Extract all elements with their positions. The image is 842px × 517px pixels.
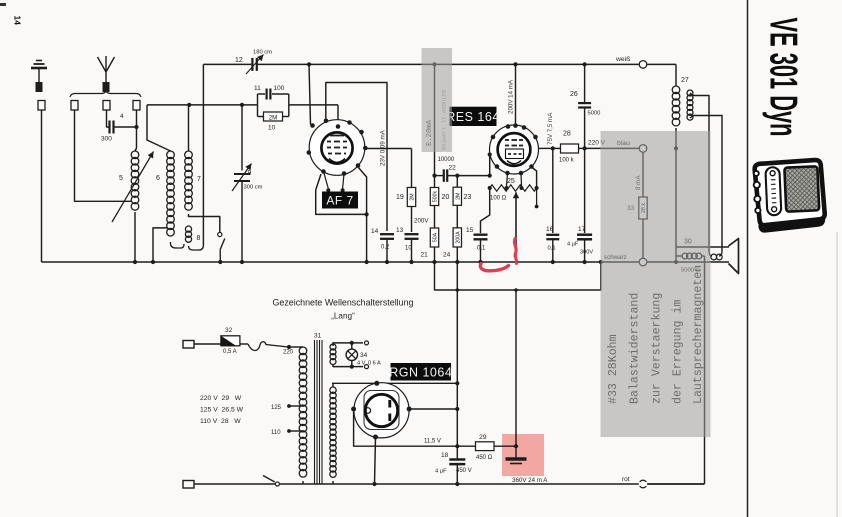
svg-text:15: 15 [466, 227, 474, 234]
wire L6 top [147, 105, 171, 151]
capacitor C22 [435, 157, 490, 182]
R25 wiper arrow [513, 192, 519, 262]
svg-text:14: 14 [371, 228, 379, 235]
svg-text:5000: 5000 [588, 111, 601, 117]
voltage table [200, 395, 244, 425]
AF7 electrodes [327, 136, 347, 163]
svg-text:8: 8 [197, 235, 201, 242]
svg-text:300V: 300V [580, 250, 593, 256]
terminal rot [622, 476, 647, 488]
svg-text:110 V 28 W: 110 V 28 W [200, 418, 241, 425]
wire L6 tap to bus [153, 228, 168, 262]
voltage label 75V [547, 112, 554, 145]
AF7 pins [307, 119, 368, 176]
svg-text:200V 14 mA: 200V 14 mA [508, 79, 515, 114]
junction 220V node [583, 146, 587, 150]
T27 secondary leads [690, 93, 722, 251]
wire C4 to socket4 [115, 110, 139, 129]
svg-text:11: 11 [254, 85, 261, 92]
grey highlight strip [422, 48, 453, 152]
label 200V [414, 218, 429, 225]
capacitor C18 [435, 452, 472, 486]
capacitor C26 [570, 64, 600, 148]
svg-text:17: 17 [578, 226, 586, 233]
resistor R10 [258, 105, 289, 132]
capacitor C12 (180cm trimmer) [235, 50, 272, 75]
top rail [203, 63, 676, 65]
svg-text:5: 5 [119, 175, 123, 182]
sidebar faint edge [836, 232, 838, 517]
wire L5 to bus [134, 212, 136, 262]
wire HV top [332, 383, 334, 387]
svg-text:22: 22 [449, 165, 457, 172]
svg-text:13: 13 [396, 227, 404, 234]
svg-text:0,5 A: 0,5 A [223, 349, 237, 355]
RES164 grid wire [488, 152, 492, 177]
wire to blau [585, 140, 639, 149]
svg-text:21: 21 [421, 252, 429, 259]
label 360V [512, 477, 548, 484]
bus junction L5 [133, 260, 137, 264]
svg-text:VE 301 Dyn: VE 301 Dyn [762, 18, 805, 137]
svg-text:18: 18 [441, 452, 449, 459]
page corner mark [0, 3, 6, 6]
RGN anode plate [364, 391, 399, 430]
socket bracket [70, 91, 141, 97]
title VE 301 Dyn [762, 18, 805, 137]
coil L7 [185, 151, 201, 210]
capacitor C17 [567, 148, 593, 264]
junction rail/C26 [583, 62, 587, 66]
svg-text:28: 28 [563, 131, 571, 138]
AF7 cathode wire [365, 148, 411, 150]
svg-text:25: 25 [507, 178, 515, 185]
svg-text:10: 10 [268, 125, 276, 132]
ground symbol [506, 446, 527, 463]
RES164 pins [491, 123, 538, 175]
wire R33 to schwarz [642, 219, 644, 258]
resistor R21 [421, 228, 439, 264]
tube RGN inner [365, 394, 397, 426]
AF7 top cap [336, 124, 341, 129]
potentiometer R25 (100 Ohm) [488, 178, 539, 202]
wire rail to AF7 pin [309, 64, 311, 124]
RGN filament left wire [354, 409, 458, 446]
coil L6 [156, 151, 174, 236]
speaker left vertical [674, 247, 678, 264]
svg-text:100 Ω: 100 Ω [490, 196, 507, 202]
wiper line lower [515, 290, 517, 446]
pink highlight over ground [502, 434, 544, 476]
RES164 anode wire [539, 146, 561, 150]
grey annotation text right [607, 265, 705, 404]
bus junction switch [218, 260, 222, 264]
R25 right link [532, 168, 538, 209]
svg-text:29: 29 [479, 434, 487, 441]
T31 heater winding [330, 344, 336, 365]
pilot lamp 34 [346, 349, 381, 366]
RGN pins [351, 381, 412, 440]
svg-text:75V 7,5 mA: 75V 7,5 mA [547, 112, 554, 145]
wire L6 bottom to L8 [170, 242, 184, 248]
svg-text:100: 100 [274, 85, 285, 92]
wire HV bottom [332, 481, 334, 484]
svg-text:10000: 10000 [438, 157, 455, 163]
grey highlight block [601, 131, 711, 437]
bus junction C9 [240, 260, 244, 264]
svg-text:23V 0,09 mA: 23V 0,09 mA [380, 129, 387, 166]
svg-text:200A: 200A [455, 231, 461, 244]
svg-text:Gezeichnete Wellenschalterstel: Gezeichnete Wellenschalterstellung [273, 298, 414, 308]
svg-text:125: 125 [271, 405, 282, 411]
svg-text:4 V, 0 6 A: 4 V, 0 6 A [357, 361, 381, 367]
sidebar rule [747, 0, 749, 517]
socket 4 [133, 101, 140, 111]
wire fuse to tap [240, 342, 303, 356]
T31 tap 110 [271, 429, 303, 436]
resistor R29 [476, 434, 495, 461]
waveband switch [218, 232, 225, 262]
earth symbol [31, 61, 47, 93]
label box AF7 [322, 192, 358, 209]
svg-text:100 k: 100 k [559, 158, 575, 164]
capacitor C16 branch [552, 148, 554, 233]
tube RGN envelope [354, 383, 409, 438]
RGN cathode right wire [409, 407, 459, 411]
resistor R28 [559, 131, 585, 164]
svg-text:RGN 1064: RGN 1064 [389, 365, 452, 379]
wire socket1 to bus [41, 110, 43, 262]
svg-text:10: 10 [405, 246, 412, 252]
transformer T31 primary [299, 333, 321, 478]
resistor R19 [396, 149, 416, 233]
page number 14 [13, 16, 23, 26]
junction C9/grid [240, 103, 244, 107]
wire blau node down [675, 148, 677, 247]
svg-text:2M: 2M [410, 193, 416, 200]
svg-text:9: 9 [248, 170, 252, 177]
RGN filament bars [365, 400, 390, 421]
RGN bottom pin wire [372, 437, 376, 486]
caption [273, 298, 414, 321]
tube RES164 envelope [490, 125, 539, 174]
svg-text:16: 16 [546, 226, 554, 233]
wire rail to RES164 top pin [515, 64, 517, 126]
svg-text:32: 32 [225, 327, 233, 334]
svg-text:450 Ω: 450 Ω [476, 455, 493, 461]
wire L7 top [188, 105, 190, 151]
wire L7 to waveband switch [189, 214, 220, 232]
bottom rail gap for rot [639, 482, 705, 486]
svg-text:34: 34 [360, 352, 368, 359]
svg-text:4 μF: 4 μF [567, 242, 579, 248]
svg-text:110: 110 [271, 430, 281, 436]
svg-text:0,2: 0,2 [381, 245, 390, 251]
svg-text:23: 23 [464, 194, 472, 201]
wire grid bus [147, 104, 338, 106]
svg-text:RES 164: RES 164 [446, 110, 500, 124]
svg-text:4 μF: 4 μF [435, 469, 447, 475]
lamp circuit [333, 341, 369, 369]
capacitor C13 [396, 227, 419, 264]
field coil L30 [676, 239, 705, 274]
svg-text:11,5 V: 11,5 V [424, 439, 441, 445]
tube AF7 inner [321, 132, 352, 163]
svg-text:31: 31 [314, 333, 322, 340]
speaker cone [729, 239, 739, 274]
grey annotation text top [426, 89, 448, 150]
svg-text:20: 20 [442, 194, 450, 201]
svg-text:4: 4 [120, 113, 124, 120]
red pen squiggle [514, 239, 516, 264]
svg-text:500k: 500k [433, 190, 439, 202]
svg-text:220: 220 [283, 350, 294, 356]
resistor R33 [627, 197, 647, 219]
svg-text:AF 7: AF 7 [326, 193, 353, 207]
label box RGN1064 [389, 363, 452, 381]
mains plug lower [183, 481, 194, 489]
RGN anode wire [332, 381, 459, 385]
resistor R20 [430, 188, 449, 229]
speaker frame top [676, 246, 729, 248]
svg-text:125 V 26,5 W: 125 V 26,5 W [200, 407, 244, 414]
socket 2 [71, 101, 78, 111]
red pen swoosh [480, 264, 508, 271]
mains switch [194, 476, 705, 487]
terminal schwarz [604, 254, 647, 266]
junction rail/RES164 anode [513, 62, 517, 66]
arrow through L5 (variable) [112, 152, 154, 223]
svg-text:26: 26 [570, 91, 578, 98]
voice coil [709, 251, 722, 260]
capacitor C15 branch [481, 188, 490, 233]
svg-text:19: 19 [396, 194, 404, 201]
wire L8 bottom to C12 line [189, 245, 204, 250]
wire grid to AF7 top cap [337, 105, 339, 125]
wire T27 to blau node [674, 128, 678, 150]
RES164 electrodes [505, 140, 524, 164]
svg-text:0,1: 0,1 [477, 246, 486, 252]
svg-text:2M: 2M [269, 115, 278, 122]
radio cabinet icon [753, 160, 826, 232]
voltage label 200V 14mA [508, 79, 515, 114]
svg-text:50A: 50A [433, 232, 439, 242]
RES164 heater stubs [505, 173, 524, 190]
transformer T27 secondary [687, 90, 693, 120]
AF7 foot frame [316, 167, 369, 264]
capacitor C16 [546, 226, 559, 264]
capacitor C15 [466, 227, 488, 264]
svg-text:180 cm: 180 cm [253, 50, 272, 56]
variable capacitor C9 [232, 105, 263, 262]
HT column [455, 262, 459, 459]
wire C4 node to coil5 [135, 127, 137, 151]
capacitor C11 [254, 85, 289, 105]
capacitor C14 [371, 228, 394, 264]
fuse F32 [221, 327, 240, 355]
T31 HV winding [330, 387, 336, 477]
svg-text:12: 12 [235, 57, 243, 64]
AF7 grid stubs [324, 172, 345, 193]
terminal weiss [615, 56, 647, 68]
socket 3 [103, 101, 110, 111]
label 11.5V [424, 439, 441, 445]
svg-text:220 V 29 W: 220 V 29 W [200, 395, 242, 402]
wire primary bottom [302, 481, 304, 484]
wire C12 left drop [202, 64, 204, 245]
label box RES164 [446, 107, 500, 126]
resistor R23 [453, 174, 471, 228]
wiper to bus [515, 196, 517, 262]
svg-text:450 V: 450 V [456, 468, 472, 474]
wire socket2 to coil5 tap [75, 110, 132, 201]
voltage label 23V [380, 129, 387, 166]
svg-text:300: 300 [101, 136, 112, 143]
bus junction L6 [151, 260, 155, 264]
chassis bus [42, 261, 730, 263]
junction rail/AF7 anode [307, 62, 311, 66]
T31 core [315, 340, 323, 484]
svg-text:0,1: 0,1 [548, 246, 556, 252]
bus detour U [435, 260, 603, 292]
svg-text:6: 6 [156, 175, 160, 182]
wire blau to R33 [642, 152, 644, 197]
coil L5 [119, 151, 139, 210]
coil L8 [185, 226, 200, 242]
wire AF7 screen arch [326, 83, 387, 232]
svg-text:rot: rot [622, 476, 630, 483]
svg-text:7: 7 [197, 176, 201, 183]
svg-text:27: 27 [681, 77, 689, 84]
capacitor C4 [101, 113, 124, 143]
svg-text:24: 24 [443, 252, 451, 259]
svg-text:2M: 2M [455, 193, 461, 200]
wire plug to fuse [194, 343, 221, 345]
tube RES164 inner [498, 133, 531, 166]
current label 8mA [635, 175, 642, 190]
svg-text:weiß: weiß [615, 56, 630, 63]
svg-text:14: 14 [13, 16, 23, 26]
wire rail corner to T27 [675, 64, 677, 86]
junction rail/R20 column [432, 62, 436, 66]
R20 column wire [432, 64, 436, 187]
wire socket3 to C4 [107, 110, 109, 127]
svg-text:„Lang“: „Lang“ [331, 312, 355, 321]
wire to R29 [457, 445, 475, 447]
wire field coil to rot rail [704, 256, 706, 484]
antenna symbol [98, 56, 115, 92]
mains plug upper [183, 341, 194, 349]
svg-text:300 cm: 300 cm [244, 185, 263, 191]
transformer T27 primary [672, 77, 689, 126]
wire R29 to ground [494, 444, 518, 448]
resistor R24 [443, 228, 462, 264]
tube AF7 envelope [309, 120, 365, 176]
svg-text:360V 24 m A: 360V 24 m A [512, 477, 548, 484]
T31 tap 125 [271, 404, 303, 411]
socket 1 [38, 101, 45, 111]
terminal blau [617, 140, 647, 152]
junction L7/grid [187, 103, 191, 107]
svg-text:200V: 200V [414, 218, 429, 225]
